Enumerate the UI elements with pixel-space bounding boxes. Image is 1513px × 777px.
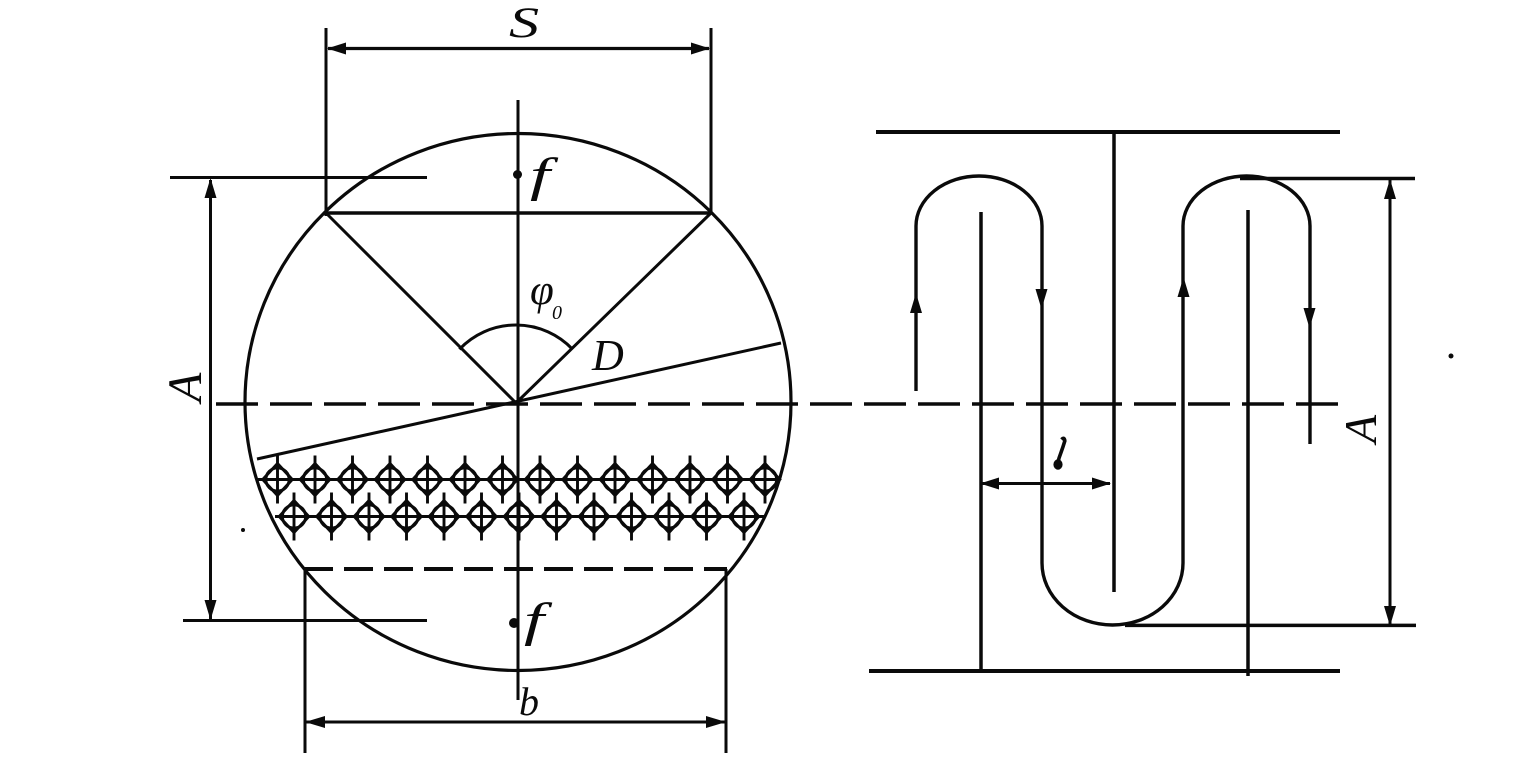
right figure top line	[876, 130, 1340, 134]
svg-text:f: f	[524, 594, 553, 647]
horizontal center dash line	[216, 402, 1348, 406]
svg-text:S: S	[509, 0, 539, 47]
dimension S arrow line	[328, 47, 709, 50]
right radial line	[516, 213, 711, 403]
svg-text:φ: φ	[530, 267, 554, 314]
dimension A left arrow line	[209, 180, 212, 619]
circle outline	[245, 134, 791, 671]
focus dot top f	[513, 170, 522, 179]
dimension S extension left	[325, 28, 328, 216]
dimension A right arrow line	[1389, 180, 1392, 625]
tube row line 1	[256, 478, 780, 481]
dimension A left bottom extension	[183, 619, 427, 622]
dimension A left top extension	[170, 176, 427, 179]
diameter line D	[257, 343, 781, 459]
right figure central vertical	[1112, 132, 1116, 592]
dimension A right top extension	[1240, 177, 1415, 181]
meander arrow up 1	[910, 293, 922, 313]
right figure inner vertical 2	[1246, 210, 1250, 676]
label l	[1058, 438, 1065, 463]
meander arrow down 2	[1304, 308, 1316, 328]
label f top	[530, 149, 559, 202]
right figure inner vertical 1	[979, 212, 983, 672]
right figure bottom line	[869, 669, 1340, 673]
chord S line	[326, 211, 711, 215]
dimension A right bottom extension	[1125, 624, 1416, 628]
dimension b arrow line	[306, 721, 725, 724]
dimension S extension right	[710, 28, 713, 213]
meander arrow up 2	[1178, 277, 1190, 297]
dimension b extension left	[304, 569, 307, 753]
svg-text:A: A	[1335, 414, 1386, 446]
speck right	[1449, 354, 1454, 359]
focus dot bottom f	[509, 618, 519, 628]
left radial line	[326, 213, 516, 403]
angle arc phi0	[459, 325, 572, 349]
meander arrow down 1	[1036, 289, 1048, 309]
dashed chord b	[304, 567, 727, 571]
tube symbols row 2	[279, 493, 759, 541]
label f bottom	[524, 594, 553, 647]
svg-text:b: b	[519, 679, 539, 724]
vertical center line	[517, 100, 520, 700]
tube row line 2	[275, 515, 764, 518]
svg-text:A: A	[159, 372, 212, 405]
svg-text:D: D	[591, 331, 624, 380]
svg-text:0: 0	[552, 302, 562, 324]
dimension b extension right	[725, 569, 728, 753]
meander scan path	[916, 176, 1310, 625]
dimension l arrow line	[981, 482, 1110, 485]
tube symbols row 1	[263, 456, 780, 504]
speck left	[241, 528, 245, 532]
label S	[509, 0, 539, 47]
svg-text:f: f	[530, 149, 559, 202]
